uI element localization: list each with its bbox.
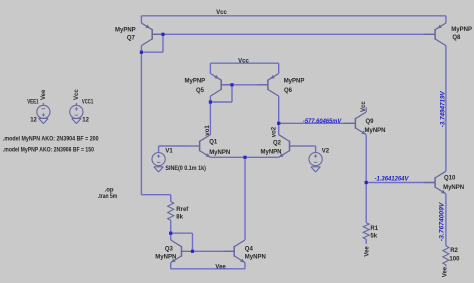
svg-text:Vcc: Vcc	[361, 101, 367, 112]
svg-text:-1.3641264V: -1.3641264V	[375, 176, 410, 182]
svg-text:Q3: Q3	[165, 247, 174, 253]
svg-text:Q1: Q1	[209, 139, 218, 145]
svg-text:MyNPN: MyNPN	[209, 150, 230, 156]
svg-text:.tran 5m: .tran 5m	[98, 194, 118, 200]
svg-text:VEE1: VEE1	[27, 100, 39, 106]
svg-text:Vee: Vee	[215, 264, 226, 270]
svg-text:Vee: Vee	[41, 89, 47, 100]
svg-text:Vee: Vee	[442, 266, 448, 277]
svg-text:R2: R2	[450, 248, 458, 254]
svg-text:MyNPN: MyNPN	[245, 254, 266, 260]
svg-text:Q9: Q9	[366, 119, 375, 125]
svg-text:MyPNP: MyPNP	[451, 27, 472, 33]
svg-text:SINE(0 0.1m 1k): SINE(0 0.1m 1k)	[165, 166, 206, 172]
svg-text:Q4: Q4	[245, 247, 254, 253]
svg-text:Vcc: Vcc	[216, 10, 227, 16]
svg-text:Q5: Q5	[196, 88, 205, 94]
svg-text:-3.7674009V: -3.7674009V	[440, 201, 446, 241]
svg-text:R1: R1	[370, 226, 378, 232]
svg-text:MyPNP: MyPNP	[185, 78, 206, 84]
svg-text:Q8: Q8	[452, 35, 461, 41]
svg-text:vo1: vo1	[205, 125, 211, 136]
svg-text:.model MyPNP AKO: 2N3906 BF =: .model MyPNP AKO: 2N3906 BF = 150	[3, 147, 95, 153]
svg-text:Q2: Q2	[273, 141, 282, 147]
svg-text:MyNPN: MyNPN	[443, 185, 464, 191]
svg-text:Q7: Q7	[127, 36, 136, 42]
svg-text:.model MyNPN AKO: 2N3904 BF =: .model MyNPN AKO: 2N3904 BF = 200	[3, 137, 99, 143]
svg-text:MyPNP: MyPNP	[115, 27, 136, 33]
svg-text:Vee: Vee	[364, 246, 370, 257]
svg-text:Rref: Rref	[176, 207, 189, 213]
svg-text:VCC1: VCC1	[82, 100, 94, 106]
svg-text:MyNPN: MyNPN	[260, 149, 281, 155]
svg-text:.op: .op	[105, 188, 114, 194]
svg-text:Vcc: Vcc	[74, 89, 80, 100]
svg-text:100: 100	[449, 256, 460, 262]
svg-text:-577.60465mV: -577.60465mV	[303, 119, 342, 125]
svg-text:12: 12	[30, 117, 37, 123]
svg-text:12: 12	[82, 117, 89, 123]
svg-text:MyNPN: MyNPN	[365, 128, 386, 134]
svg-text:-3.7494719V: -3.7494719V	[440, 90, 446, 127]
svg-text:vo2: vo2	[272, 126, 278, 137]
svg-text:8k: 8k	[176, 215, 183, 221]
svg-text:V2: V2	[322, 148, 330, 154]
svg-text:MyNPN: MyNPN	[155, 254, 176, 260]
svg-text:Q10: Q10	[444, 175, 456, 181]
svg-text:Vcc: Vcc	[238, 58, 249, 64]
svg-text:MyPNP: MyPNP	[284, 78, 305, 84]
svg-text:Q6: Q6	[284, 88, 293, 94]
svg-text:V1: V1	[165, 148, 173, 154]
svg-text:5k: 5k	[370, 234, 377, 240]
